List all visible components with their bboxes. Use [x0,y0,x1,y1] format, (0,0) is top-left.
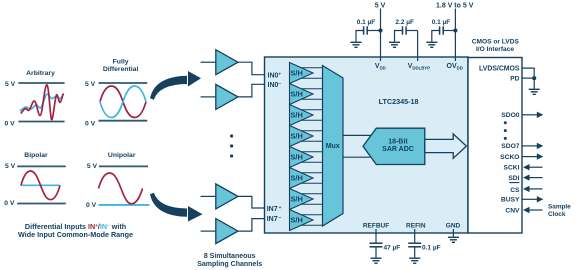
wire CNV input arrow [523,207,543,213]
svg-text:SCKO: SCKO [500,154,519,161]
node 5V label (fully differential) [85,81,96,88]
wire 5V rail (bipolar) [17,165,66,167]
pin IN7- label [267,216,282,223]
node 0V label (bipolar) [4,200,15,207]
svg-text:I/O Interface: I/O Interface [476,46,514,53]
I/O interface block [468,58,522,234]
arbitrary red waveform [21,85,64,120]
wire amp A3 output to IN7+ [238,196,265,208]
bipolar red sine waveform [21,171,60,200]
caption Differential Inputs [18,222,133,239]
svg-text:1.8 V to 5 V: 1.8 V to 5 V [436,3,474,10]
pin GND label [446,222,461,229]
amplifier A2 [216,84,238,109]
pin OVDD label [447,63,463,71]
svg-text:CS: CS [510,187,520,194]
ground for C5 [409,258,420,263]
svg-text:0.1 µF: 0.1 µF [357,19,376,26]
svg-text:REFIN: REFIN [406,222,426,229]
wire GND pin to ground [452,233,454,237]
pin IN0- label [268,82,282,89]
svg-text:S/H: S/H [291,173,303,182]
fully differential cyan waveform [100,86,146,118]
svg-text:Sample: Sample [548,203,571,210]
svg-text:47 µF: 47 µF [384,244,401,251]
svg-text:Mux: Mux [326,143,340,150]
supply node 5V label [375,3,386,10]
ellipsis dots SDO [504,121,507,140]
svg-text:0 V: 0 V [5,120,16,127]
data bus output arrow [425,134,467,158]
wire REFIN to C5 [414,233,416,243]
svg-text:Arbitrary: Arbitrary [26,70,55,77]
svg-text:8 Simultaneous: 8 Simultaneous [204,253,256,260]
svg-text:0 V: 0 V [86,202,97,209]
S/H sample-and-hold 2 [290,84,314,105]
wire amp A3 input [201,195,216,197]
wire Mux to ADC top [343,134,372,136]
svg-text:SCKI: SCKI [504,165,520,172]
wire 5V rail (fully differential) [99,82,148,84]
amplifier A4 [216,219,238,244]
pin PD label [510,75,519,82]
waveform panel Bipolar title [24,152,48,159]
svg-text:GND: GND [446,222,461,229]
capacitor C4 47uF [370,243,383,257]
wire LVDS/CMOS to PD junction [522,68,534,78]
wire 5V rail (unipolar) [99,165,148,167]
svg-text:S/H: S/H [291,110,303,119]
node 5V label (arbitrary) [5,81,16,88]
amplifier A1 [216,50,238,75]
pin VDD stub [380,57,382,61]
svg-text:SAR ADC: SAR ADC [382,146,414,153]
svg-text:LVDS/CMOS: LVDS/CMOS [479,65,520,72]
pin SDO0 label [501,112,519,119]
junction dot VDD bypass [378,28,382,32]
svg-text:SDI: SDI [508,175,519,182]
svg-text:Sampling Channels: Sampling Channels [197,261,262,268]
ground for PD [529,89,540,94]
node 5V label (unipolar) [87,163,98,170]
unipolar red sine waveform [99,173,143,204]
svg-text:CNV: CNV [505,207,520,214]
I/O interface caption [472,38,520,53]
wire junction to ground [533,78,535,89]
IC label LTC2345-18 [379,97,419,106]
node 0V label (arbitrary) [5,120,16,127]
pin REFBUF label [363,222,389,229]
wire amp A4 output to IN7- [238,219,265,232]
svg-text:Bipolar: Bipolar [24,152,48,159]
waveform panel Unipolar title [108,152,136,159]
svg-text:5 V: 5 V [5,163,16,170]
svg-text:0.1 µF: 0.1 µF [422,244,441,251]
capacitor C3 [432,26,456,41]
capacitor C1 value 0.1uF [357,19,376,26]
svg-text:18-Bit: 18-Bit [388,138,408,145]
S/H sample-and-hold 1 [290,63,314,84]
pin LVDS/CMOS label [479,65,520,72]
wire amp A1 output to IN0+ [238,62,265,74]
pin OVDD stub [454,57,456,61]
capacitor C4 value 47uF [384,244,401,251]
svg-text:REFBUF: REFBUF [363,222,389,229]
wire 0V rail (fully differential) [99,120,148,122]
pin REFIN label [406,222,426,229]
caption 8 simultaneous sampling channels [197,253,262,268]
wire 0V rail (bipolar) [17,203,66,205]
svg-text:SDO0: SDO0 [501,112,519,119]
capacitor C5 value 0.1uF [422,244,441,251]
svg-text:BUSY: BUSY [501,197,520,204]
wire amp A1 input [201,61,216,63]
svg-text:Clock: Clock [548,211,566,218]
pin SCKO label [500,154,519,161]
amplifier A3 [216,184,238,209]
node Sample Clock label [548,203,571,218]
ground for C1 [351,42,362,47]
ADC U1 18-bit SAR ADC [363,128,425,164]
S/H sample-and-hold 7 [290,189,314,210]
pin VDDLBYP label [408,63,430,71]
ground for C4 [371,258,382,263]
IC LTC2345-18 body [265,57,469,233]
arbitrary cyan waveform [20,94,64,112]
S/H sample-and-hold 3 [290,105,314,126]
svg-text:2.2 µF: 2.2 µF [395,19,414,26]
wires S/H outputs to Mux [300,68,323,226]
pin SDI label [508,175,519,182]
svg-text:PD: PD [510,75,519,82]
wire OVDD supply [454,9,456,58]
svg-text:LTC2345-18: LTC2345-18 [379,97,419,106]
wire Mux to ADC bottom [343,156,372,158]
wire CS input arrow [523,186,543,192]
ground for GND pin [448,237,459,242]
ellipsis dots between amp pairs [230,134,233,157]
wire amp A4 input [201,230,216,232]
pin VDD label [375,63,386,71]
svg-text:5 V: 5 V [375,3,386,10]
waveform panel Arbitrary title [26,70,55,77]
wire 0V rail (arbitrary) [18,121,64,123]
wire SCKI input arrow [523,164,543,170]
svg-text:S/H: S/H [291,152,303,161]
wire 5V supply to VDD [380,9,382,58]
capacitor C2 [395,26,418,41]
pin SCKI label [504,165,520,172]
wire SDI input arrow [523,174,543,180]
curved arrow top [150,71,201,100]
pin VDDLBYP stub [417,57,419,61]
junction dot PD [532,76,536,80]
svg-text:5 V: 5 V [5,81,16,88]
wire amp A2 output to IN0- [238,84,265,97]
wire REFBUF to C4 [375,233,377,243]
svg-text:0 V: 0 V [85,120,96,127]
node 5V label (bipolar) [5,163,16,170]
wire SDO7 output arrow [522,143,543,149]
capacitor C1 [356,26,381,41]
capacitor C2 value 2.2uF [395,19,414,26]
junction dot OVDD bypass [453,28,457,32]
svg-text:5 V: 5 V [87,163,98,170]
waveform panel Fully Differential title [103,59,139,73]
svg-text:S/H: S/H [291,131,303,140]
svg-text:0.1 µF: 0.1 µF [432,19,451,26]
curved arrow bottom [150,193,203,222]
wire SCKO output arrow [522,153,543,159]
svg-text:S/H: S/H [291,194,303,203]
ground for C3 [426,42,437,47]
capacitor C5 0.1uF [408,243,421,257]
svg-text:5 V: 5 V [85,81,96,88]
pin BUSY label [501,197,520,204]
pin CS label with overline [509,183,520,194]
svg-text:Differential: Differential [103,66,139,73]
pin IN0+ label [268,73,282,80]
svg-text:Wide Input Common-Mode Range: Wide Input Common-Mode Range [18,230,133,239]
pin CNV label [505,207,520,214]
pin GND stub [452,229,454,233]
ground for C2 [389,42,400,47]
bipolar common-mode cyan line [21,184,60,186]
svg-text:0 V: 0 V [4,200,15,207]
S/H sample-and-hold 5 [290,147,314,168]
S/H sample-and-hold 8 [290,210,314,231]
wire 0V rail cyan (unipolar) [99,204,150,206]
svg-text:S/H: S/H [291,89,303,98]
wire C2 to VDDLBYP [417,31,419,58]
fully differential red waveform [100,86,146,118]
S/H sample-and-hold 4 [290,126,314,147]
svg-text:SDO7: SDO7 [501,143,519,150]
multiplexer Mux [323,66,344,227]
wire amp A2 input [201,96,216,98]
svg-text:Fully: Fully [113,59,129,66]
wire PD to junction [522,77,534,79]
wire 5V rail (arbitrary) [18,82,64,84]
wire BUSY output arrow [522,196,543,202]
wire SDO0 output arrow [522,112,543,118]
pin REFBUF stub [375,229,377,233]
pin SDO7 label [501,143,519,150]
pin IN7+ label [267,206,282,213]
svg-text:CMOS or LVDS: CMOS or LVDS [472,38,520,45]
svg-text:S/H: S/H [291,68,303,77]
pin REFIN stub [414,229,416,233]
supply node 1.8V to 5V label [436,3,474,10]
svg-text:Unipolar: Unipolar [108,152,136,159]
node 0V label (fully differential) [85,120,96,127]
node 0V label (unipolar) [86,202,97,209]
svg-text:S/H: S/H [291,215,303,224]
capacitor C3 value 0.1uF [432,19,451,26]
S/H sample-and-hold 6 [290,168,314,189]
